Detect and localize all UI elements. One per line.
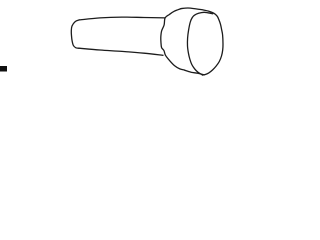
head face inner ellipse edge xyxy=(187,12,212,74)
head bottom tangent line xyxy=(185,70,205,75)
shaft bottom edge xyxy=(79,48,163,55)
shaft top edge xyxy=(79,17,165,20)
head back rim E1 xyxy=(161,9,185,71)
bolt line-art illustration xyxy=(0,0,300,85)
edge mark lower-left xyxy=(0,66,7,72)
head top tangent and right face outline xyxy=(181,8,223,75)
shaft left rounded cap xyxy=(71,20,79,48)
